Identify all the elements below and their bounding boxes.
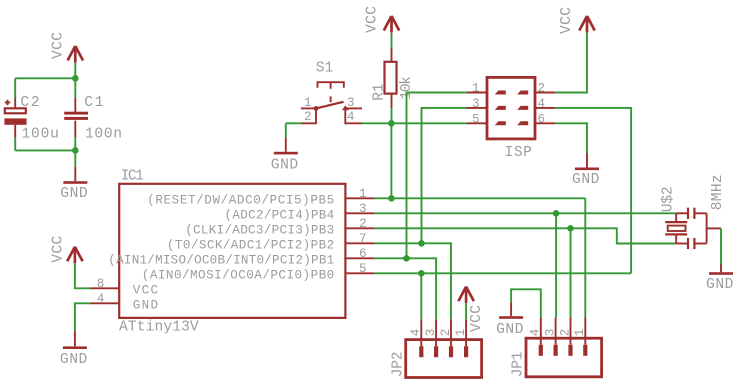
svg-text:(AIN1/MISO/OC0B/INT0/PCI2)PB1: (AIN1/MISO/OC0B/INT0/PCI2)PB1 — [108, 253, 334, 267]
wire JP2 pin4 drop — [420, 273, 422, 319]
svg-text:VCC: VCC — [51, 235, 67, 262]
wire ISP pin6 to GND — [555, 123, 587, 153]
wire PB4 row to resonator — [374, 212, 676, 214]
node junction PB0 at JP2 pin4 — [418, 270, 425, 277]
svg-text:VCC: VCC — [51, 32, 67, 59]
svg-text:1: 1 — [573, 329, 587, 337]
wire R1 bottom to RESET junction — [391, 108, 393, 123]
ground symbol GND (below ISP) — [586, 153, 588, 168]
power symbol VCC (left of IC1) — [67, 247, 82, 263]
power symbol VCC (above R1) — [384, 16, 399, 33]
svg-text:C2: C2 — [20, 95, 39, 111]
svg-text:100n: 100n — [85, 126, 122, 142]
wire C2 bottom lead — [14, 137, 16, 150]
svg-text:1: 1 — [304, 96, 312, 110]
svg-text:6: 6 — [538, 112, 546, 126]
wire PB2 row to JP2 pin2 — [374, 243, 451, 319]
wire PB5/RESET row to JP1 pin1 — [374, 197, 585, 199]
svg-text:2: 2 — [304, 110, 312, 124]
wire JP1 pin4 to GND — [511, 289, 541, 317]
svg-text:1: 1 — [472, 82, 480, 96]
pin 4 JP2 — [409, 319, 423, 357]
pin 3 IC1 PB4 — [225, 202, 375, 223]
power symbol VCC (above ISP) — [579, 16, 594, 33]
wire VCC down to ISP pin2 — [555, 33, 587, 93]
wire VCC arrow to junction — [74, 63, 76, 79]
wire resonator pin3 to GND — [720, 228, 722, 264]
svg-text:4: 4 — [97, 292, 105, 306]
svg-text:U$2: U$2 — [661, 186, 677, 212]
svg-text:(T0/SCK/ADC1/PCI2)PB2: (T0/SCK/ADC1/PCI2)PB2 — [167, 238, 334, 252]
wire junction to GND pin — [74, 150, 76, 166]
wire VCC to JP2 pin1 — [465, 303, 467, 319]
svg-text:JP2: JP2 — [390, 352, 406, 378]
svg-text:JP1: JP1 — [510, 351, 526, 377]
capacitor C1 (100n) — [64, 78, 88, 137]
pin 4 IC1 GND — [91, 292, 159, 312]
wire RESET net S1 to ISP pin5 — [362, 122, 467, 124]
svg-text:S1: S1 — [316, 60, 334, 76]
pin 4 JP1 — [529, 318, 543, 356]
svg-text:VCC: VCC — [469, 305, 485, 332]
wire PB1 row to JP2 pin3 — [374, 258, 436, 319]
wire junction to C2 branch (horizontal) — [15, 77, 75, 79]
svg-text:R1: R1 — [371, 83, 387, 101]
svg-text:IC1: IC1 — [121, 168, 144, 184]
svg-text:ATtiny13V: ATtiny13V — [119, 319, 199, 335]
wire C1 bottom to junction — [74, 137, 76, 150]
pin 8 IC1 VCC — [91, 277, 159, 297]
pin 2 IC1 PB3 — [185, 217, 374, 238]
svg-text:VCC: VCC — [133, 283, 159, 297]
svg-text:6: 6 — [359, 247, 367, 261]
wire ISP pin4 to MOSI drop — [555, 108, 631, 273]
pin 3 ISP — [467, 97, 506, 111]
svg-text:2: 2 — [558, 329, 572, 337]
svg-text:(AIN0/MOSI/OC0A/PCI0)PB0: (AIN0/MOSI/OC0A/PCI0)PB0 — [142, 268, 334, 282]
svg-text:3: 3 — [424, 329, 438, 337]
pin 1 ISP — [467, 82, 506, 96]
svg-text:1: 1 — [454, 329, 468, 337]
svg-text:(CLKI/ADC3/PCI3)PB3: (CLKI/ADC3/PCI3)PB3 — [185, 223, 334, 237]
node junction RESET at PB5 row — [388, 195, 395, 202]
svg-text:2: 2 — [439, 329, 453, 337]
pin 1 IC1 PB5 — [147, 187, 374, 208]
wire PB3 row with jog to resonator — [374, 228, 676, 243]
svg-text:8: 8 — [97, 277, 105, 291]
svg-text:GND: GND — [133, 298, 158, 312]
svg-text:4: 4 — [538, 97, 546, 111]
pin 5 IC1 PB0 — [142, 262, 375, 283]
svg-text:3: 3 — [359, 202, 367, 216]
svg-text:1: 1 — [359, 187, 367, 201]
svg-text:2: 2 — [359, 217, 367, 231]
svg-text:GND: GND — [60, 352, 88, 368]
svg-text:4: 4 — [347, 110, 355, 124]
svg-text:(ADC2/PCI4)PB4: (ADC2/PCI4)PB4 — [225, 208, 335, 222]
svg-text:VCC: VCC — [365, 6, 381, 33]
pin 7 IC1 PB2 — [167, 232, 374, 253]
wire IC1 pin 4 to GND — [75, 303, 91, 331]
pin 4 ISP — [517, 97, 555, 111]
wire ISP pin3 to SCK drop — [422, 108, 467, 243]
svg-text:3: 3 — [347, 96, 355, 110]
node junction C1/C2 bottom — [72, 147, 79, 154]
switch S1 tact button — [301, 82, 362, 123]
wire VCC to R1 — [391, 33, 393, 49]
svg-text:2: 2 — [538, 82, 546, 96]
svg-text:5: 5 — [359, 262, 367, 276]
wire RESET down to PB5 — [390, 123, 392, 198]
svg-text:GND: GND — [496, 322, 524, 338]
svg-text:100u: 100u — [22, 126, 59, 142]
wire bottom horizontal C2 to junction — [15, 149, 75, 151]
wire C2 top lead vertical — [14, 78, 16, 98]
node junction PB3 at JP1 pin2 — [567, 225, 574, 232]
power symbol VCC (top-left) — [68, 46, 83, 63]
svg-text:(RESET/DW/ADC0/PCI5)PB5: (RESET/DW/ADC0/PCI5)PB5 — [147, 193, 334, 207]
pin 6 IC1 PB1 — [108, 247, 374, 268]
connector ISP body — [487, 77, 535, 138]
pin 2 JP1 — [558, 318, 572, 356]
svg-text:4: 4 — [409, 329, 423, 337]
pin 2 JP2 — [439, 319, 453, 357]
wire PB0 row to ISP pin4 drop — [374, 272, 631, 274]
pin 1 JP2 — [454, 319, 468, 357]
ground symbol GND (below resonator) — [720, 265, 722, 273]
wire JP1 pin3 drop — [555, 213, 557, 317]
wire VCC to IC1 pin 8 — [75, 263, 91, 288]
ground symbol GND (below S1) — [285, 137, 287, 152]
wire S1 pin2 to GND drop — [286, 122, 301, 124]
svg-text:8MHz: 8MHz — [710, 174, 726, 210]
ground symbol GND (left of JP1) — [510, 303, 512, 317]
svg-text:GND: GND — [706, 277, 734, 293]
svg-text:C1: C1 — [84, 95, 103, 111]
svg-text:VCC: VCC — [559, 7, 575, 34]
svg-text:ISP: ISP — [505, 145, 532, 161]
ground symbol GND (below C1) — [74, 167, 76, 181]
svg-text:GND: GND — [572, 172, 600, 188]
svg-text:3: 3 — [472, 97, 480, 111]
resistor R1 — [385, 49, 397, 109]
svg-text:4: 4 — [529, 329, 543, 337]
wire GND drop vertical — [285, 123, 287, 137]
ground symbol GND (below IC1 VCC) — [74, 331, 76, 347]
crystal resonator U$2 — [665, 208, 721, 249]
connector JP1 body — [526, 338, 602, 377]
svg-text:3: 3 — [543, 329, 557, 337]
wire JP1 pin2 drop — [570, 228, 572, 317]
capacitor C2 (polarized 100u) — [4, 98, 26, 137]
power symbol VCC (at JP2 pin1) — [458, 287, 473, 304]
pin 3 JP1 — [543, 318, 557, 356]
svg-text:GND: GND — [271, 158, 299, 174]
svg-text:5: 5 — [472, 112, 480, 126]
node junction SCK at PB2 row — [418, 240, 425, 247]
pin 5 ISP — [467, 112, 506, 126]
svg-text:7: 7 — [359, 232, 367, 246]
pin 2 ISP — [517, 82, 555, 96]
op-amp IC1 ATtiny13V body — [119, 184, 345, 318]
pin 6 ISP — [517, 112, 555, 126]
pin 1 JP1 — [573, 318, 587, 356]
node junction VCC/C1/C2 top — [72, 75, 79, 82]
node junction PB4 at JP1 pin3 — [553, 210, 560, 217]
wire ISP pin1 to MISO drop — [407, 93, 467, 259]
connector JP2 body — [406, 340, 482, 378]
svg-text:GND: GND — [60, 186, 88, 202]
node junction MISO at PB1 row — [403, 255, 410, 262]
node junction RESET at R1 — [388, 120, 395, 127]
pin 3 JP2 — [424, 319, 438, 357]
